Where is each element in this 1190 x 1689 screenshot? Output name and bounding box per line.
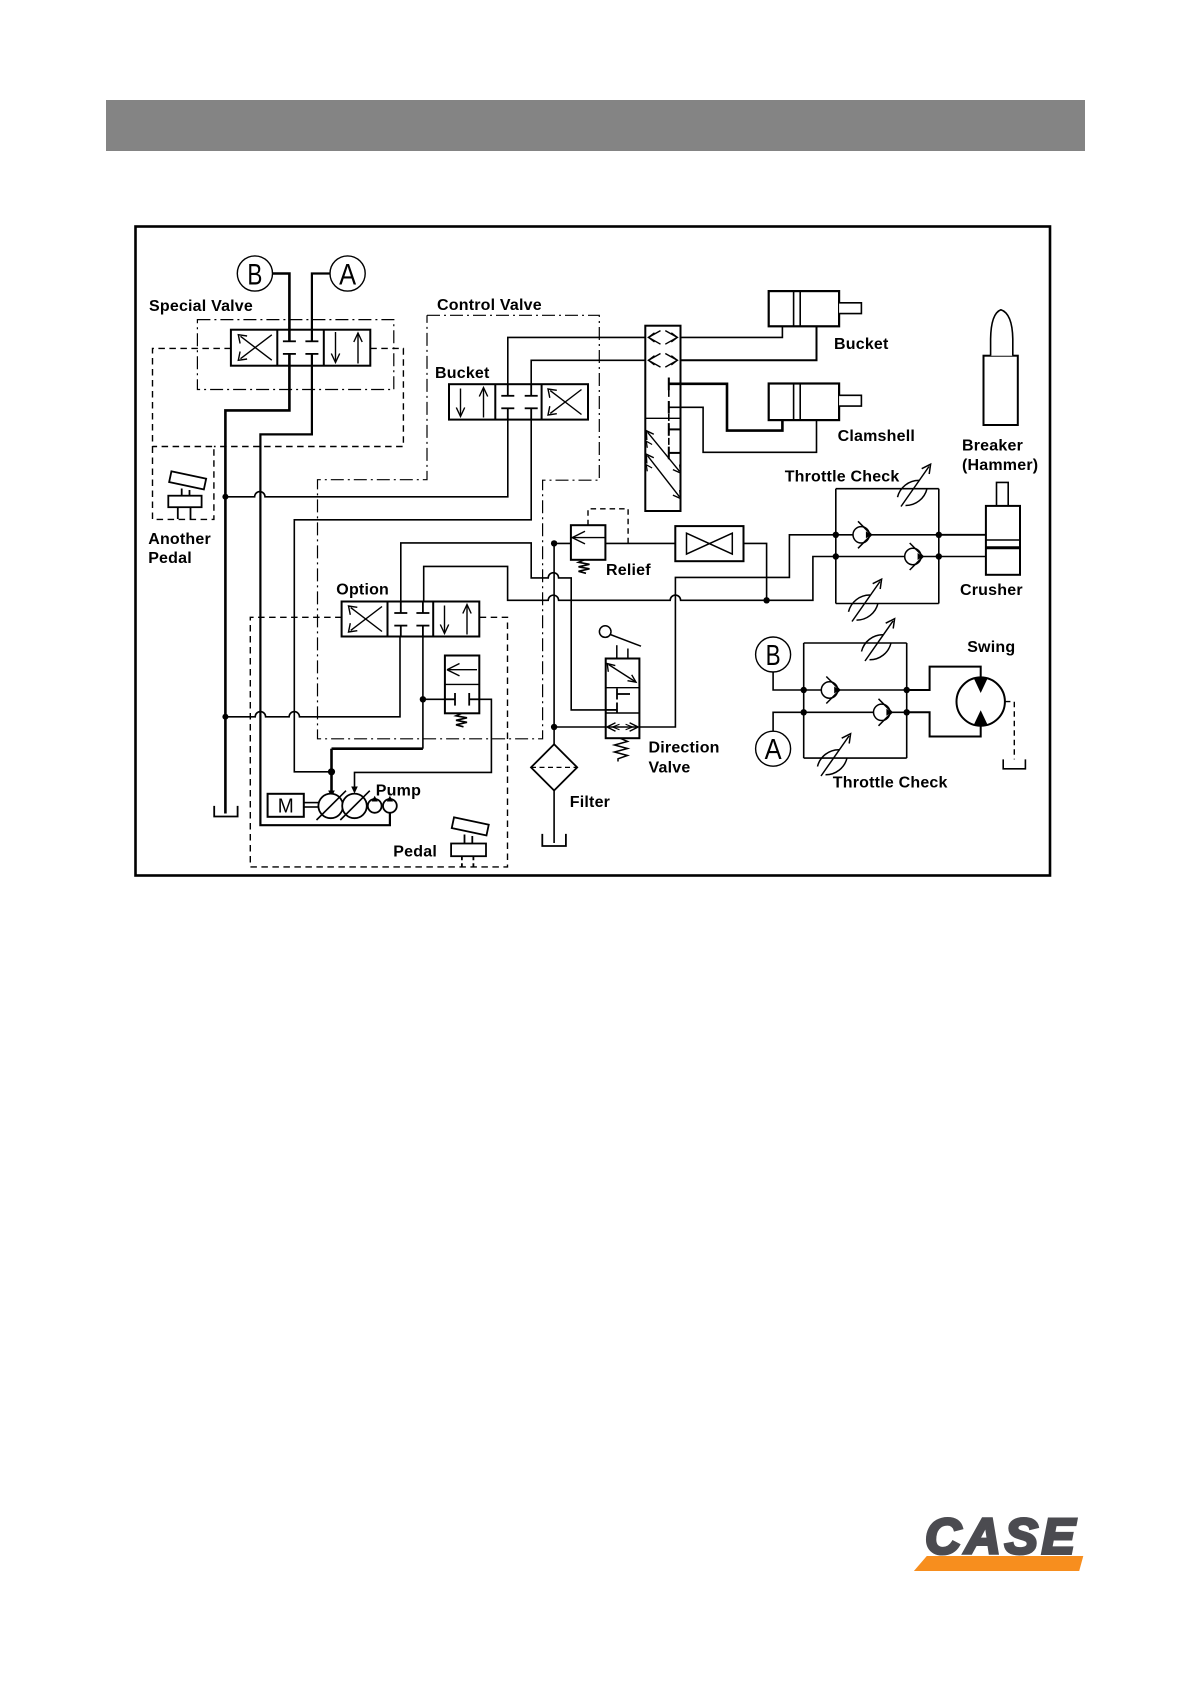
svg-text:Bucket: Bucket [435,365,490,382]
wire relief inlet tee [554,542,571,544]
node A (circle A top) [330,256,365,292]
svg-text:Throttle Check: Throttle Check [785,469,900,486]
svg-text:Crusher: Crusher [960,582,1023,599]
svg-text:Pedal: Pedal [148,550,192,567]
pilot dashed line right (valve to pedal box) [214,348,404,446]
svg-text:Direction: Direction [649,740,720,757]
wire relief to shutoff valve [605,542,675,544]
special valve V1 right cell straight arrows [331,332,362,364]
special valve V1 middle cell closed ports [283,341,319,354]
svg-text:CASE: CASE [925,1509,1077,1565]
spool block U1 [645,326,680,511]
wire direction valve bottom line [554,726,606,728]
crusher throttle check block frame [836,489,939,604]
swing motor M2 [957,677,1005,725]
spool block center dashed spool line [668,378,670,458]
spool block port ticks [669,378,681,460]
svg-text:Throttle Check: Throttle Check [833,775,948,792]
throttle symbol T3 on crusher top [898,464,931,506]
CASE logo [914,1509,1083,1572]
filter F1 [531,744,577,790]
swing motor drain dashed [1005,702,1014,760]
svg-text:Swing: Swing [967,639,1015,656]
pump P2 (variable) [342,794,367,819]
direction valve V5 body [606,659,640,739]
swing port circle A [756,731,791,766]
wire option valve P-port to direction valve (via relief tee) [401,543,606,710]
svg-text:M: M [278,796,294,818]
Another Pedal pedal symbol [168,471,206,519]
wire pump supply to bucket valve (y 519.8) [294,420,531,772]
svg-text:A: A [339,259,356,292]
svg-text:Filter: Filter [570,794,610,811]
bucket valve V2 middle cell port stubs [508,384,531,419]
svg-text:Control Valve: Control Valve [437,297,542,314]
wire tank line to option valve (y716.8) [225,637,400,717]
svg-text:(Hammer): (Hammer) [962,457,1038,474]
direction valve V5 middle section closed ports [606,689,630,714]
shutoff valve SV1 (bowtie) [675,526,743,561]
svg-text:Bucket: Bucket [834,336,889,353]
pedal symbol bottom [451,817,489,867]
wire spool to clamshell (thick) [669,384,783,431]
Another Pedal dashed box [153,447,214,520]
diagram frame [136,227,1051,876]
pilot check valve V4 (2-section) [445,656,479,714]
ground tank swing [1003,759,1025,768]
ground tank left [214,806,237,817]
direction valve V5 bottom section double arrow [607,723,638,731]
header gray bar [106,100,1085,151]
wire long option line to crusher (y600.3) [424,557,836,602]
bucket valve V2 body [449,384,588,419]
svg-text:Clamshell: Clamshell [838,428,915,445]
svg-text:Relief: Relief [606,562,651,579]
wire shutoff to crusher net junction [744,543,767,600]
check valve CV2 on swing line A [874,699,892,726]
bucket cylinder C1 [769,291,862,326]
junction dots on B-net [222,494,228,500]
relief valve RV1 [571,525,606,560]
wire A to swing throttle block [773,712,804,731]
control valve dash-dot enclosure [318,315,600,739]
pedal box dashed boundary [250,617,507,867]
bucket valve V2 left cell straight arrows [456,388,487,418]
pump P1 (variable) [318,794,343,819]
wire B to swing throttle block [773,672,804,690]
swing throttle check block frame [804,643,907,758]
wire swing block to motor [907,667,981,690]
svg-text:B: B [247,259,262,292]
pilot check valve V4 bottom closed ports [445,693,479,706]
svg-text:Breaker: Breaker [962,438,1023,455]
wire pilot check to pump2 [423,698,445,700]
spool block shuttle symbol top (y337.4) [649,331,678,345]
wire A-port to valve [260,274,390,826]
special valve V1 left cell crossed arrows [238,335,271,361]
wire bucket-valve drain to B-net (y 496.8 with hop) [225,420,507,497]
svg-text:Special Valve: Special Valve [149,298,253,315]
bucket valve V2 right cell crossed arrows [548,389,582,415]
direction valve V5 spring [615,738,628,761]
spool block diagonal arrows lower section [646,431,680,499]
relief valve RV1 pilot dashed [588,509,628,544]
throttle symbol T4 on crusher bottom [849,579,882,621]
svg-text:Valve: Valve [649,760,691,777]
option valve V3 body [342,602,480,637]
wire filter net (relief tee down to filter and tank) [553,543,555,744]
throttle symbol T2 on swing bottom [818,734,851,776]
svg-text:A: A [765,734,783,766]
option valve V3 middle cell closed ports [394,602,429,637]
pilot dashed line left (valve to Another Pedal) [153,348,231,446]
check valve CV1 on swing line B [821,677,839,704]
clamshell cylinder C2 [769,384,862,421]
wire crusher block to crusher cylinder [939,534,986,536]
svg-text:Pump: Pump [376,783,421,800]
svg-text:Another: Another [148,531,211,548]
relief valve RV1 spring [579,560,590,574]
svg-text:B: B [766,640,781,672]
breaker (hammer) symbol [984,310,1018,425]
electric motor M1 [268,794,304,817]
wire spool to clamshell rod side [669,407,817,452]
spool block shuttle symbol (y360.3) [649,354,678,368]
swing port circle B [756,637,791,672]
check valve CV3 on crusher line 1 [853,521,871,548]
wire pump1 supply (thick) [332,749,423,796]
special valve dash-dot enclosure [197,320,393,390]
svg-text:Option: Option [336,582,389,599]
direction valve V5 top section arrow [607,664,636,683]
wire bucket valve top ports to spool block [508,337,646,384]
labels [148,297,1038,861]
throttle symbol T1 on swing top [862,619,895,661]
pilot check valve V4 spring [456,713,467,727]
check valve CV4 on crusher line 2 [905,543,923,570]
option valve V3 left cell crossed arrows [349,606,383,632]
special valve V1 body [231,330,370,366]
direction valve V5 lever [599,626,641,659]
pilot check valve V4 top arrow [447,664,477,676]
option valve V3 right cell straight arrows [440,605,471,635]
relief valve RV1 arrow [572,531,585,544]
svg-text:Pedal: Pedal [393,844,437,861]
pilot pump P4 [383,799,397,813]
crusher cylinder C3 [986,482,1020,574]
wire spool to bucket cylinder lines [681,326,783,337]
wire B-port to valve (thick) [225,274,289,814]
node B (circle B top) [237,256,272,292]
ground tank filter [542,834,566,846]
pilot pump P3 [368,799,382,813]
bucket valve V2 middle cell closed ports [501,396,537,409]
